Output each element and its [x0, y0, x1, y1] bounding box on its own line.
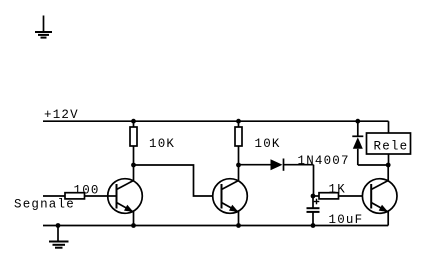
node J4 (cap / 1K): [311, 194, 316, 199]
polarity plus of C1: [314, 199, 320, 205]
resistor R4 1K: [313, 193, 362, 199]
svg-text:1K: 1K: [329, 183, 346, 197]
transistor Q1: [108, 165, 143, 226]
node J3 collector Q2: [236, 163, 241, 168]
svg-text:Segnale: Segnale: [14, 198, 75, 212]
capacitor C1 10uF: [307, 196, 320, 226]
resistor R3 100 (input): [43, 193, 108, 199]
resistor R1 10K: [130, 121, 137, 165]
diode D1 1N4007: [239, 159, 314, 197]
relay K1 box: [367, 121, 411, 165]
svg-text:10K: 10K: [255, 137, 281, 151]
diode D2 flyback: [352, 121, 388, 165]
node J2 collector Q1: [131, 163, 136, 168]
node emitter Q2: [236, 223, 241, 228]
svg-text:+12V: +12V: [44, 108, 79, 122]
node top of R2: [236, 119, 241, 124]
node bottom of C1: [311, 223, 316, 228]
svg-text:10K: 10K: [149, 137, 175, 151]
ground GND-bottom: [49, 226, 69, 248]
resistor R2 10K: [235, 121, 242, 165]
ground GND-top (floating): [35, 16, 52, 38]
wire +12V rail: [43, 120, 389, 122]
node ground tap: [56, 223, 61, 228]
wire J2 to base Q2: [134, 165, 213, 196]
node J5 collector Q3: [386, 163, 391, 168]
wire ground rail: [43, 225, 388, 227]
transistor Q3: [362, 165, 397, 226]
svg-text:Rele: Rele: [374, 140, 409, 154]
node top of R1: [131, 119, 136, 124]
node top of D2: [355, 119, 360, 124]
svg-text:1N4007: 1N4007: [298, 154, 350, 168]
transistor Q2: [213, 165, 248, 226]
node emitter Q1: [131, 223, 136, 228]
svg-text:100: 100: [74, 184, 100, 198]
